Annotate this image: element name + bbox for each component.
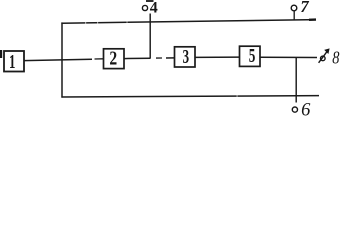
block 1: [4, 51, 24, 73]
scan gaps on top feedback line: [85, 21, 86, 25]
wire: block1 to block2: [24, 59, 92, 60]
wire: terminal 4 lead down to main wire: [149, 14, 151, 59]
block 2: [104, 48, 125, 69]
svg-text:6: 6: [301, 100, 311, 120]
wire: block5 to terminal 8: [260, 56, 317, 58]
page edge artifact: [0, 50, 2, 58]
scan gap on bottom feedback line: [237, 95, 238, 98]
svg-text:4: 4: [150, 0, 158, 16]
wire dash before block2: [95, 58, 104, 60]
artifact dash above terminal 4: [146, 0, 154, 2]
wire: left vertical of feedback loop: [61, 22, 63, 97]
wire: top feedback line: [61, 20, 316, 24]
terminal 6 circle: [292, 107, 297, 112]
wire: block2 to block3: [124, 57, 151, 59]
svg-text:5: 5: [249, 46, 256, 67]
terminal 7 lead tick: [293, 11, 295, 20]
wire into block3: [166, 57, 175, 59]
svg-text:8: 8: [332, 47, 339, 67]
terminal 8 circle: [321, 56, 326, 61]
block 5: [240, 46, 261, 67]
wire: bottom feedback line: [61, 96, 319, 97]
svg-text:3: 3: [183, 47, 190, 68]
svg-text:2: 2: [109, 48, 117, 69]
terminal 4 circle: [142, 5, 147, 10]
terminal 7 circle: [291, 5, 297, 11]
wire: terminal 6 lead down from main wire: [295, 58, 297, 103]
wire dash after node4 drop: [156, 57, 162, 59]
heavy end of top line: [309, 18, 316, 21]
svg-text:1: 1: [9, 52, 15, 73]
wire: block3 to block5: [195, 56, 240, 58]
block 3: [175, 47, 196, 68]
svg-text:7: 7: [300, 0, 309, 16]
terminal 8 arrow: [319, 48, 330, 62]
